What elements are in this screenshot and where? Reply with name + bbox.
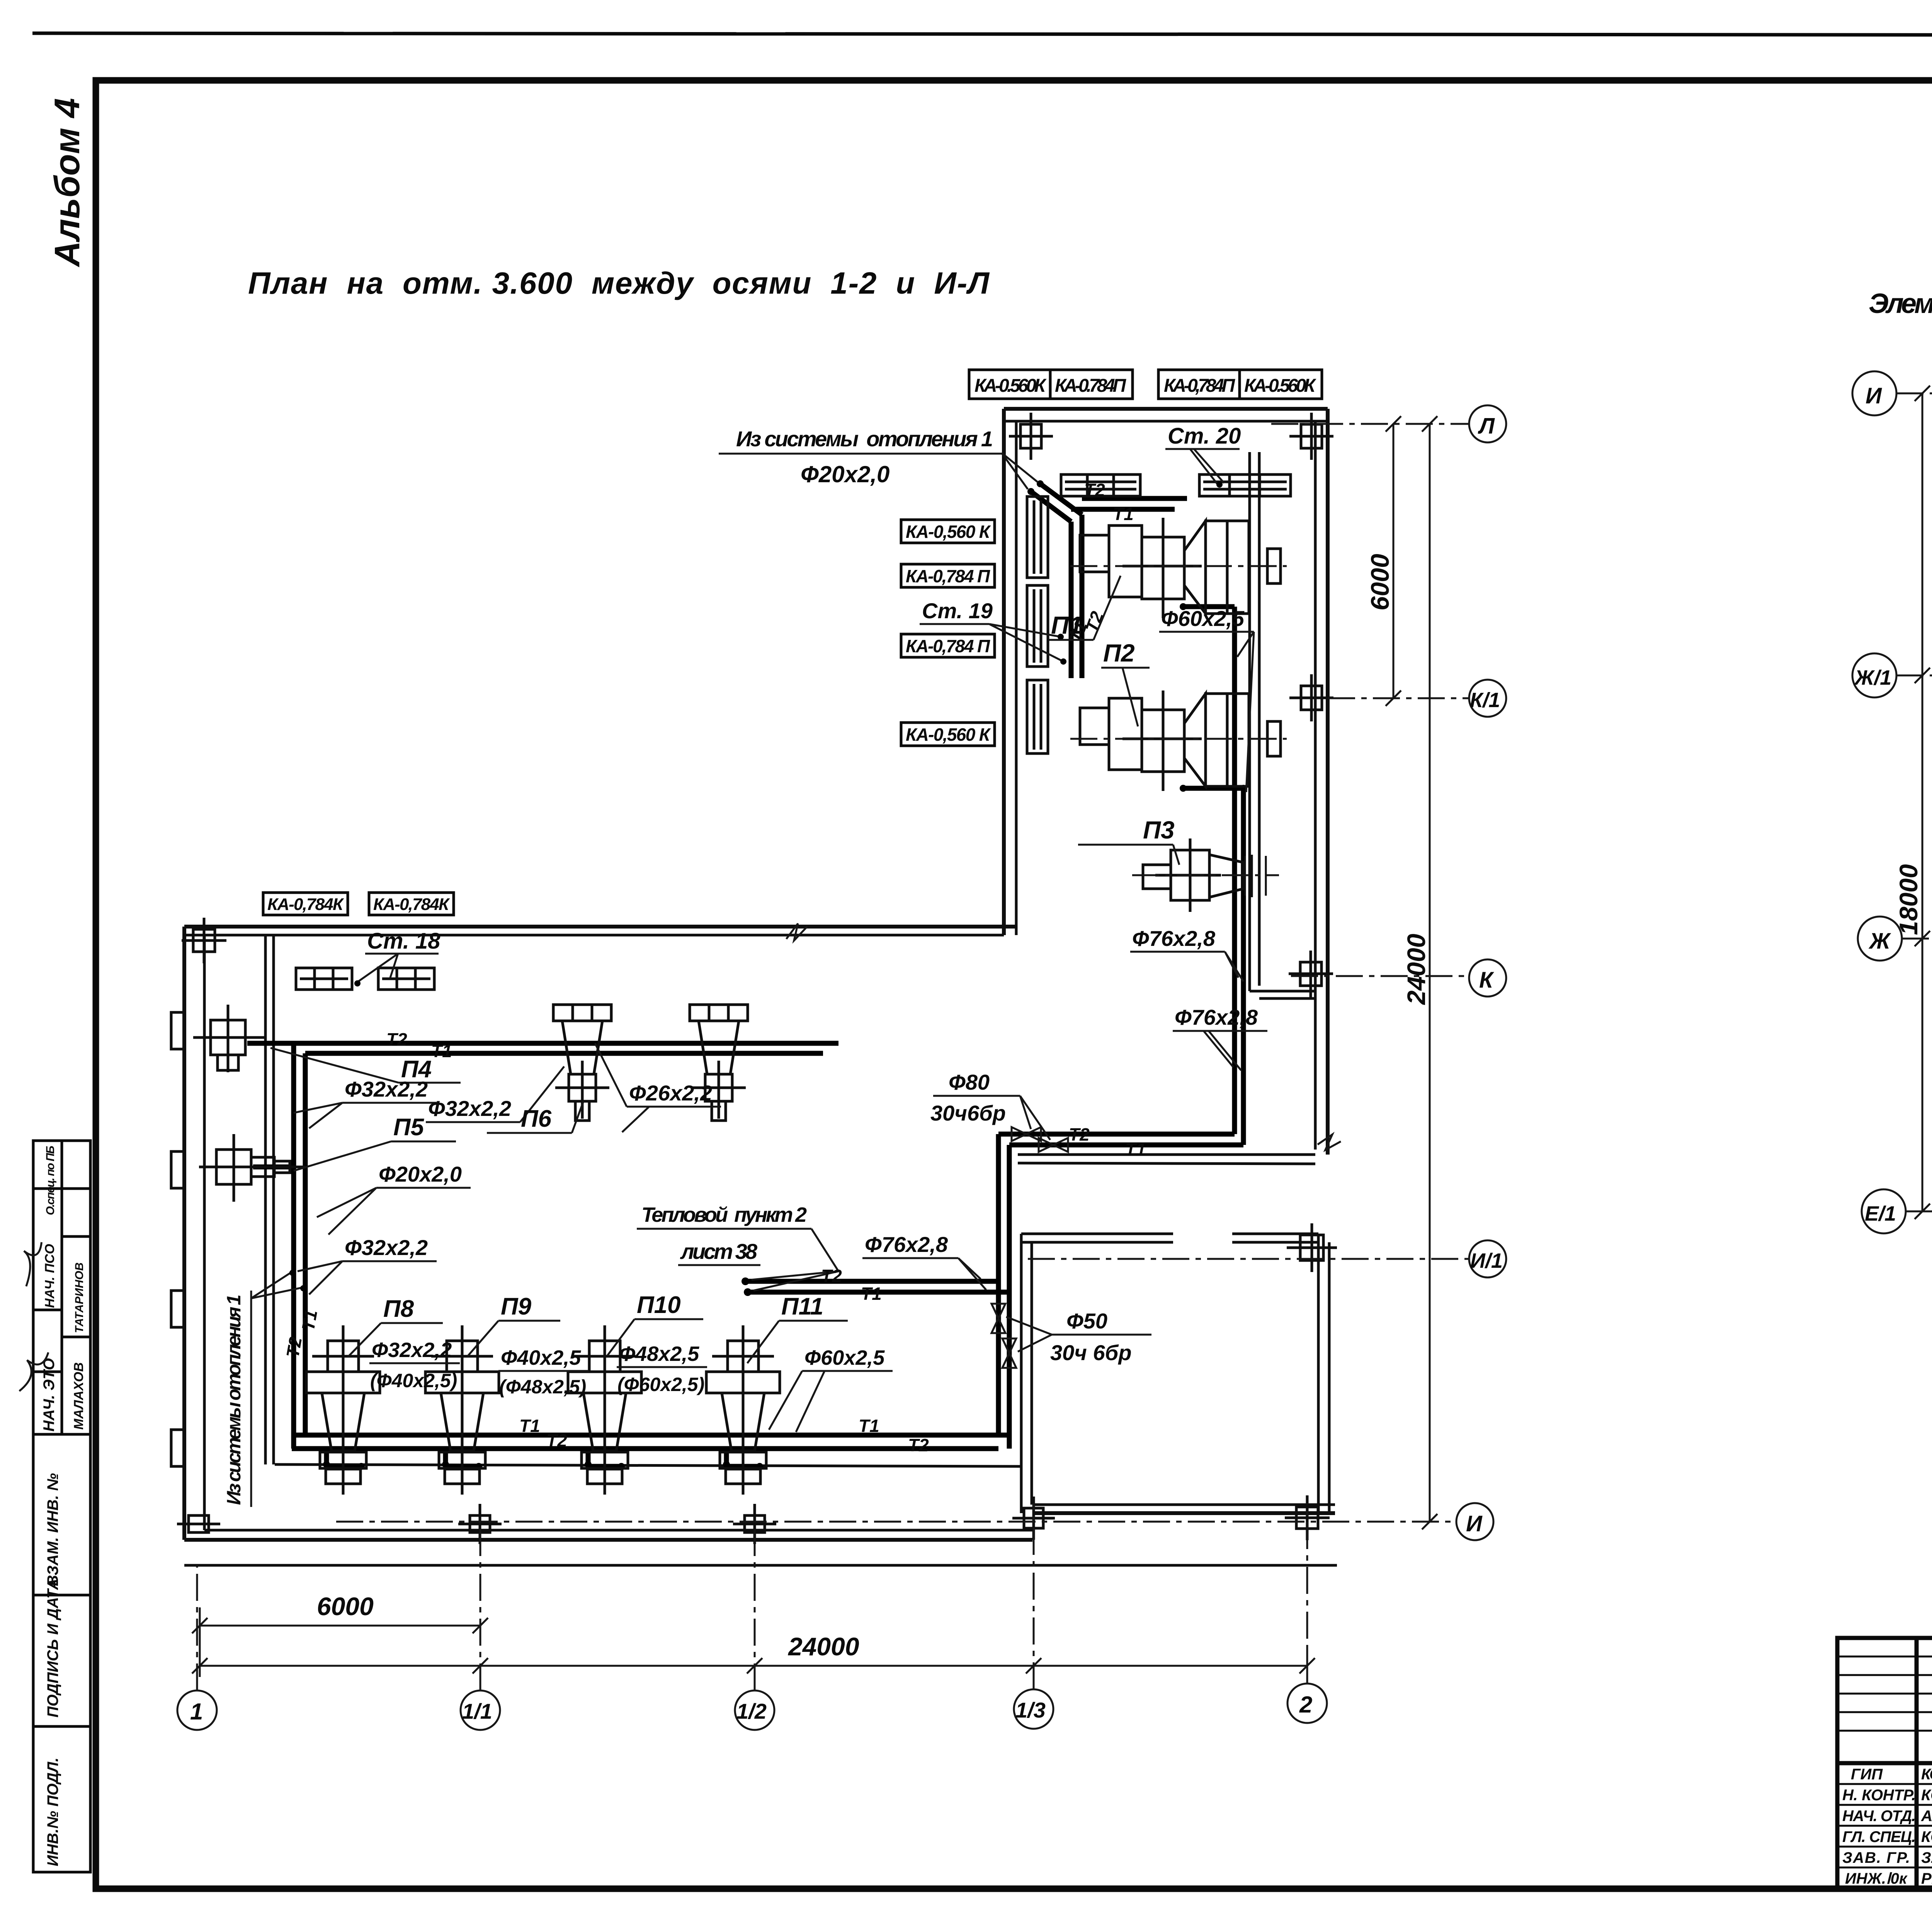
axis circle Zh/1 xyxy=(1852,653,1896,697)
corridor inner wall jog xyxy=(1250,990,1315,993)
radiator column St19 c xyxy=(1027,680,1048,753)
wire: upper top pair T2 xyxy=(1082,496,1187,501)
axis circle I xyxy=(1456,1503,1493,1540)
svg-text:Ф48х2,5: Ф48х2,5 xyxy=(619,1342,699,1366)
column mark lower-left top xyxy=(193,929,215,952)
svg-text:Ф26х2,2: Ф26х2,2 xyxy=(629,1081,712,1105)
room A right wall xyxy=(1317,1234,1320,1513)
axis circle E/1 xyxy=(1862,1189,1906,1233)
svg-text:Ф32х2,2: Ф32х2,2 xyxy=(372,1338,452,1362)
paper top edge line xyxy=(32,33,1932,36)
svg-text:ПОДПИСЬ И ДАТА: ПОДПИСЬ И ДАТА xyxy=(44,1578,61,1718)
wire: left risers pair xyxy=(291,1043,296,1449)
svg-text:Ст. 18: Ст. 18 xyxy=(367,929,440,954)
wire: P1 outlet to riser xyxy=(1183,604,1235,609)
left margin stamp table xyxy=(33,1141,90,1872)
dim 6000 right xyxy=(1393,424,1395,698)
svg-text:НАЧ. ОТД.: НАЧ. ОТД. xyxy=(1842,1808,1916,1825)
upper hall right wall xyxy=(1326,409,1330,1155)
svg-text:НАЧ. ЭТО: НАЧ. ЭТО xyxy=(41,1358,58,1432)
svg-text:Альбом 4: Альбом 4 xyxy=(48,98,87,267)
axis 1 line xyxy=(196,1565,198,1690)
svg-text:П6: П6 xyxy=(521,1105,552,1132)
svg-text:Т2: Т2 xyxy=(821,1266,842,1286)
svg-text:КА-0,784П: КА-0,784П xyxy=(1164,376,1235,396)
upper hall top wall xyxy=(1004,407,1328,411)
column mark K xyxy=(1300,962,1321,986)
svg-text:КА-0.784П: КА-0.784П xyxy=(1055,376,1126,396)
wire: down pair to heat point T1 xyxy=(1007,1145,1012,1449)
svg-text:Ф76х2,8: Ф76х2,8 xyxy=(1175,1005,1258,1029)
svg-text:Ф32х2,2: Ф32х2,2 xyxy=(345,1235,428,1260)
axis I/1 line xyxy=(1028,1258,1469,1260)
radiator column St19 b xyxy=(1027,585,1048,667)
wall break mark xyxy=(1318,1134,1341,1150)
svg-text:18000: 18000 xyxy=(1894,864,1923,935)
svg-text:(Ф60х2,5): (Ф60х2,5) xyxy=(617,1374,704,1395)
axis circle 1/1 xyxy=(461,1690,500,1730)
svg-text:П8: П8 xyxy=(383,1296,414,1322)
valve F80 on T1 xyxy=(1039,1138,1068,1152)
svg-text:1: 1 xyxy=(190,1699,203,1725)
wire: K-level horizontal pair T2 xyxy=(998,1132,1235,1137)
svg-text:30ч 6бр: 30ч 6бр xyxy=(1050,1340,1132,1365)
axis circle Zh xyxy=(1858,917,1902,961)
svg-text:Ф60х2,5: Ф60х2,5 xyxy=(804,1346,885,1369)
svg-text:П9: П9 xyxy=(501,1293,532,1320)
svg-text:Т2: Т2 xyxy=(546,1430,567,1451)
svg-text:Т1: Т1 xyxy=(861,1284,882,1304)
radiator column St19 a xyxy=(1027,497,1048,578)
svg-text:МАЛАХОВ: МАЛАХОВ xyxy=(71,1362,86,1430)
wire: inlet diagonal T1 xyxy=(1031,492,1071,522)
svg-text:КОРОСТЕЛЕВ: КОРОСТЕЛЕВ xyxy=(1921,1766,1932,1783)
lower hall inner left partition xyxy=(264,935,267,1464)
svg-text:Т2: Т2 xyxy=(908,1435,929,1455)
svg-text:О.спец. по ПБ: О.спец. по ПБ xyxy=(44,1146,57,1215)
column mark axis2 bottom xyxy=(1296,1507,1318,1529)
svg-text:К: К xyxy=(1479,968,1494,993)
svg-text:Т2: Т2 xyxy=(1069,1124,1090,1145)
svg-text:Т1: Т1 xyxy=(519,1416,540,1436)
axis 2 line xyxy=(1306,1503,1308,1684)
signatures squiggles in stamp xyxy=(16,1242,52,1286)
wire: main riser pair in corridor xyxy=(1232,607,1237,1134)
svg-text:Ф32х2,2: Ф32х2,2 xyxy=(345,1077,428,1101)
wire: unit stubs on mains xyxy=(327,1449,760,1466)
svg-text:Ф60х2,5: Ф60х2,5 xyxy=(1161,606,1245,631)
KA boxes lower hall xyxy=(263,893,454,915)
svg-text:Ст. 20: Ст. 20 xyxy=(1168,423,1241,449)
column mark K/1 xyxy=(1301,686,1322,710)
unit P7 hanging xyxy=(690,1005,748,1121)
wire: K-level horizontal pair T1 xyxy=(1009,1143,1243,1148)
dim 24000 bottom xyxy=(200,1665,1307,1667)
svg-text:Е/1: Е/1 xyxy=(1865,1202,1896,1225)
radiator lower top wall B xyxy=(378,968,434,990)
lower hall left wall xyxy=(182,927,186,1540)
svg-text:Т2: Т2 xyxy=(282,1335,306,1359)
LEFT PLAN xyxy=(171,266,1506,1730)
svg-text:П10: П10 xyxy=(637,1292,681,1318)
svg-text:К/1: К/1 xyxy=(1470,689,1500,712)
svg-text:24000: 24000 xyxy=(1402,934,1430,1005)
lower hall inner bottom ledge xyxy=(275,1464,1020,1466)
axis circle K/1 xyxy=(1469,680,1506,717)
svg-text:Н. КОНТР.: Н. КОНТР. xyxy=(1842,1787,1916,1804)
svg-text:КОЛБАСКО: КОЛБАСКО xyxy=(1921,1828,1932,1845)
axis circle 1 xyxy=(177,1690,217,1730)
svg-text:Т1: Т1 xyxy=(1113,504,1134,524)
unit P4 cross assembly xyxy=(193,1005,267,1072)
svg-text:Из системы отопления 1: Из системы отопления 1 xyxy=(736,427,993,451)
room A И/1 wall left segment xyxy=(1021,1233,1173,1235)
svg-text:2: 2 xyxy=(1299,1692,1312,1718)
svg-text:Т2: Т2 xyxy=(1084,480,1105,500)
axis circle 1/3 xyxy=(1014,1689,1053,1729)
left wall column bumps xyxy=(171,1012,184,1466)
svg-text:И/1: И/1 xyxy=(1470,1249,1503,1272)
svg-text:АЛПАТОВ: АЛПАТОВ xyxy=(1921,1808,1932,1825)
svg-text:Из системы отопления 1: Из системы отопления 1 xyxy=(223,1294,245,1505)
svg-text:24000: 24000 xyxy=(787,1632,859,1661)
axis L line xyxy=(1271,423,1469,425)
unit P6 hanging xyxy=(553,1005,611,1121)
svg-text:П1: П1 xyxy=(1051,611,1083,639)
svg-text:(Ф40х2,5): (Ф40х2,5) xyxy=(370,1370,457,1391)
column mark axis1/3 bottom xyxy=(1024,1508,1043,1528)
svg-text:И: И xyxy=(1466,1511,1483,1536)
svg-text:1/2: 1/2 xyxy=(736,1699,767,1723)
svg-text:1/3: 1/3 xyxy=(1015,1698,1046,1722)
svg-text:Ф80: Ф80 xyxy=(949,1070,990,1094)
axis circle K xyxy=(1469,959,1506,997)
radiator lower top wall A xyxy=(296,968,352,990)
svg-text:Т1: Т1 xyxy=(1125,1139,1146,1159)
svg-text:ИНЖ.Ⅰ0к: ИНЖ.Ⅰ0к xyxy=(1845,1870,1908,1887)
svg-text:Т1: Т1 xyxy=(298,1308,321,1332)
ground outer line xyxy=(184,1564,1337,1567)
svg-text:6000: 6000 xyxy=(1366,554,1394,611)
dim 6000 bottom xyxy=(200,1625,480,1627)
radiator group upper top B xyxy=(1199,474,1291,496)
svg-text:ВЗАМ. ИНВ. №: ВЗАМ. ИНВ. № xyxy=(44,1473,61,1586)
svg-text:КОЛБАСКО: КОЛБАСКО xyxy=(1921,1787,1932,1804)
svg-text:КА-0.560К: КА-0.560К xyxy=(975,376,1047,396)
dim 24000 right xyxy=(1429,424,1431,1522)
room A bottom wall xyxy=(1032,1511,1335,1515)
svg-text:П3: П3 xyxy=(1143,816,1175,844)
svg-text:План на отм. 3.600 между о: План на отм. 3.600 между осями 1-2 и И-Л xyxy=(248,266,990,300)
axis circle I xyxy=(1852,371,1896,415)
wire: upper hall riser pair xyxy=(1080,515,1085,678)
stamp rotated labels xyxy=(41,1146,86,1866)
svg-text:КА-0,784К: КА-0,784К xyxy=(267,895,344,914)
lower hall top wall xyxy=(184,925,1016,929)
svg-text:ТАТАРИНОВ: ТАТАРИНОВ xyxy=(73,1262,86,1333)
valve F50 upper xyxy=(992,1304,1005,1333)
axis K line xyxy=(1291,975,1469,977)
valve F80 on T2 xyxy=(1012,1127,1041,1141)
column mark axis1/1 bottom xyxy=(470,1515,490,1532)
room A left wall xyxy=(1020,1234,1023,1513)
svg-text:Ж: Ж xyxy=(1868,929,1891,954)
column mark top-left upper hall xyxy=(1020,424,1041,448)
axis 1/1 line xyxy=(480,1526,481,1690)
unit P5 cross assembly xyxy=(199,1134,305,1202)
wire: lower mains T2 xyxy=(292,1446,998,1451)
lower hall bottom wall xyxy=(184,1538,1032,1542)
signature rows xyxy=(1842,1766,1932,1887)
svg-text:Тепловой пункт 2: Тепловой пункт 2 xyxy=(641,1203,807,1226)
fan unit P2 xyxy=(1070,690,1287,791)
svg-text:Ф20х2,0: Ф20х2,0 xyxy=(379,1162,462,1186)
svg-text:РЕЗЕЦ.: РЕЗЕЦ. xyxy=(1921,1870,1932,1887)
svg-text:Ж/1: Ж/1 xyxy=(1854,666,1891,689)
wire: lower mains T1 xyxy=(292,1433,1009,1438)
svg-text:Ст. 19: Ст. 19 xyxy=(922,599,993,623)
radiator group upper top A xyxy=(1061,474,1140,496)
axis circle 2 xyxy=(1287,1684,1327,1723)
svg-text:КА-0,560 К: КА-0,560 К xyxy=(906,724,991,745)
svg-text:Элемент плана на отм. 0.000: Элемент плана на отм. 0.000 по оси 1 xyxy=(1869,288,1932,319)
fan unit P1 xyxy=(1070,518,1287,618)
room A top wall xyxy=(1018,1153,1315,1156)
KA left stack boxes xyxy=(901,520,995,746)
valve F50 lower xyxy=(1002,1338,1016,1368)
svg-text:Ф76х2,8: Ф76х2,8 xyxy=(1132,926,1216,951)
svg-text:КА-0,784 П: КА-0,784 П xyxy=(906,566,990,586)
wire: P2 outlet to riser xyxy=(1183,786,1243,791)
svg-text:лист 38: лист 38 xyxy=(680,1239,758,1264)
KA boxes top row xyxy=(969,370,1322,399)
axis K/1 line xyxy=(1328,697,1469,699)
axis 1/3 line xyxy=(1033,1503,1035,1689)
room A И/1 wall right segment xyxy=(1232,1233,1318,1235)
svg-text:(Ф48х2,5): (Ф48х2,5) xyxy=(499,1376,586,1398)
svg-text:П2: П2 xyxy=(1103,639,1135,667)
corridor inner wall xyxy=(1248,452,1251,991)
svg-text:И: И xyxy=(1866,383,1882,408)
column mark axis1/2 bottom xyxy=(745,1515,765,1532)
svg-text:Л: Л xyxy=(1478,413,1495,439)
dim extension lines bottom xyxy=(199,1607,201,1677)
main title table xyxy=(1837,1638,1932,1889)
upper hall left wall xyxy=(1002,409,1006,935)
axis 1/2 line xyxy=(754,1526,756,1690)
svg-text:Т2: Т2 xyxy=(386,1029,407,1049)
axis circle I/1 xyxy=(1469,1240,1506,1277)
wire: upper top pair T1 xyxy=(1071,507,1175,512)
svg-text:КА-0,784К: КА-0,784К xyxy=(373,895,450,914)
RIGHT PLAN xyxy=(1852,288,1932,1376)
wire: down pair to heat point T2 xyxy=(996,1134,1001,1435)
column mark top-right upper hall xyxy=(1301,424,1322,448)
svg-text:П5: П5 xyxy=(393,1114,425,1141)
svg-text:КА-0.560К: КА-0.560К xyxy=(1244,376,1316,396)
wire: unit connection stubs P4 P5 xyxy=(247,1041,294,1046)
TITLE BLOCK xyxy=(1837,1503,1932,1889)
axis I line xyxy=(336,1521,1456,1523)
svg-text:КА-0,784 П: КА-0,784 П xyxy=(906,636,990,656)
svg-text:Т1: Т1 xyxy=(859,1416,879,1436)
svg-text:ГЛ. СПЕЦ.: ГЛ. СПЕЦ. xyxy=(1842,1828,1916,1845)
svg-text:1/1: 1/1 xyxy=(462,1699,492,1723)
svg-text:Ф32х2,2: Ф32х2,2 xyxy=(428,1096,511,1121)
svg-text:ГИП: ГИП xyxy=(1851,1766,1883,1783)
svg-text:ИНВ.№ ПОДЛ.: ИНВ.№ ПОДЛ. xyxy=(44,1758,61,1866)
units P8-P11 bottom row xyxy=(306,1325,780,1495)
svg-text:НАЧ. ПСО: НАЧ. ПСО xyxy=(43,1244,57,1308)
fan unit P3 xyxy=(1132,838,1279,912)
svg-text:П11: П11 xyxy=(781,1293,823,1320)
svg-text:Ф40х2,5: Ф40х2,5 xyxy=(501,1346,581,1369)
wire: heat point stub T2 xyxy=(745,1279,998,1284)
svg-text:Ф20х2,0: Ф20х2,0 xyxy=(801,461,889,487)
axis circle L xyxy=(1469,405,1506,442)
svg-text:ЗУЕВА: ЗУЕВА xyxy=(1921,1849,1932,1866)
svg-text:6000: 6000 xyxy=(317,1592,374,1621)
wire: P4 row pair T1 xyxy=(305,1051,823,1056)
node inlet dots xyxy=(1037,480,1044,487)
column mark I/1 xyxy=(1300,1235,1323,1260)
dim 18000 xyxy=(1922,393,1923,1211)
svg-text:Ф76х2,8: Ф76х2,8 xyxy=(865,1232,948,1257)
axis circle 1/2 xyxy=(735,1690,774,1730)
wall break mark top wall xyxy=(786,923,807,940)
wire: P4 row pair T2 xyxy=(294,1041,838,1046)
wire: inlet diagonal T2 xyxy=(1040,484,1082,515)
svg-text:Т1: Т1 xyxy=(431,1041,452,1061)
column mark axis1 bottom xyxy=(189,1515,209,1532)
svg-text:КА-0,560 К: КА-0,560 К xyxy=(906,522,991,542)
wire: heat point stub T1 xyxy=(748,1290,1009,1295)
svg-text:30ч6бр: 30ч6бр xyxy=(930,1101,1006,1125)
svg-text:Ф50: Ф50 xyxy=(1066,1309,1107,1333)
